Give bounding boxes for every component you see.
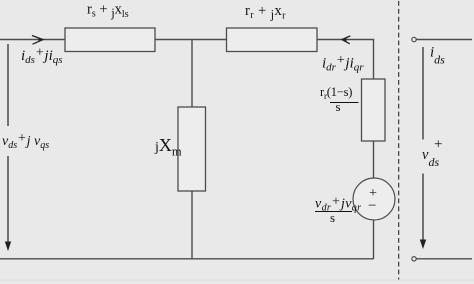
arrowhead ids	[420, 240, 426, 250]
current arrow ids+jiqs	[32, 36, 43, 45]
wire source to bus	[373, 220, 375, 259]
svg-text:+: +	[434, 137, 442, 153]
wire rotor leg top	[373, 40, 375, 80]
svg-text:s: s	[336, 99, 341, 114]
wire top stator left segment	[0, 39, 65, 41]
wire terminal top	[416, 39, 472, 41]
wire magnetizing leg bottom	[191, 191, 193, 259]
bottom page edge shade	[0, 280, 474, 282]
arrowhead vds	[5, 242, 11, 252]
current arrow idr+jiqr	[342, 36, 350, 44]
wire top right segment	[317, 39, 374, 41]
wire top middle segment	[155, 39, 227, 41]
reactance box jXm	[178, 107, 206, 191]
node vds+jvqs line upper	[7, 44, 9, 126]
resistor box rr+jxr	[227, 28, 318, 52]
label rr(1-s)/s	[320, 85, 359, 114]
voltage source V1	[353, 178, 395, 220]
wire bottom bus	[0, 258, 374, 260]
svg-text:s: s	[330, 210, 335, 225]
wire magnetizing leg top	[191, 40, 193, 108]
wire terminal bottom	[416, 258, 472, 260]
dashed boundary line	[398, 1, 400, 281]
node vds+jvqs line lower with arrow	[7, 156, 9, 243]
wire rotor leg middle	[373, 141, 375, 178]
label (vdr+jvqr)/s	[315, 195, 361, 226]
current line ids lower with arrow	[422, 174, 424, 242]
resistor box rr(1-s)/s	[362, 79, 386, 141]
svg-text:−: −	[368, 198, 376, 214]
terminal node top	[412, 37, 416, 41]
terminal node bottom	[412, 257, 416, 261]
current line ids upper	[422, 47, 424, 140]
resistor box rs+jxls	[65, 28, 155, 52]
